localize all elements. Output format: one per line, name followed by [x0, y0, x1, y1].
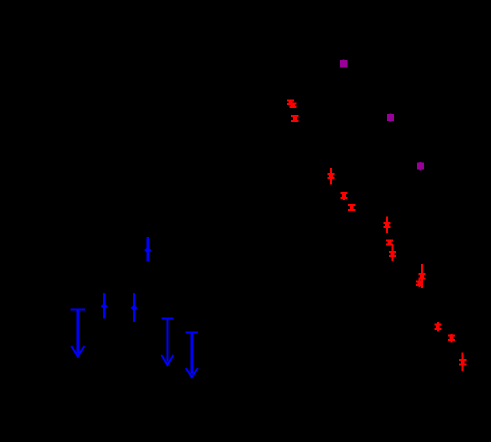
red point R6 — [348, 204, 355, 211]
red point R5 — [340, 192, 347, 200]
red point R10 — [419, 264, 426, 288]
red point R13 — [448, 334, 455, 343]
purple square S2 — [387, 113, 394, 121]
blue arrow A3 — [186, 331, 198, 377]
purple square S1 — [340, 59, 347, 67]
red point R12 — [434, 322, 441, 332]
blue point B2 — [101, 293, 108, 319]
red point R11 — [416, 280, 423, 288]
blue arrow A2 — [161, 318, 173, 365]
red point R2 — [289, 103, 296, 109]
blue point B3 — [131, 293, 138, 322]
red point R3 — [291, 115, 299, 122]
red point R8 — [386, 239, 393, 245]
purple square S3 — [417, 162, 424, 170]
red point R7 — [384, 217, 391, 233]
blue arrow A1 — [71, 309, 85, 357]
red point R1 — [287, 99, 294, 105]
blue point B1 — [144, 237, 151, 262]
red point R14 — [459, 353, 467, 372]
red point R9 — [389, 245, 396, 262]
red point R4 — [328, 168, 335, 185]
